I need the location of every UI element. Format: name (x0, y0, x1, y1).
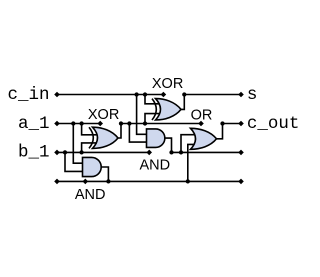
pin diamond a_1 left (54, 121, 60, 127)
svg-text:XOR: XOR (152, 76, 183, 92)
wire AND2 output to node and2 (165, 138, 172, 152)
junction dot c_out/ORout (220, 121, 224, 125)
or gate OR1 (191, 128, 217, 149)
wire OR output to c_out (217, 124, 223, 139)
svg-text:XOR: XOR (88, 107, 119, 123)
svg-text:b_1: b_1 (18, 143, 50, 163)
pin diamond and2 right (238, 150, 244, 156)
label AND2 (140, 158, 171, 174)
wire b_1 horizontal net (57, 151, 149, 153)
wire xor1 rise to XOR2 input B (145, 114, 160, 124)
pin diamond c_in end (161, 92, 167, 98)
pin diamond and1 mid (83, 179, 89, 185)
wire c_in horizontal net (57, 94, 163, 96)
and gate AND2 (147, 129, 165, 148)
wire XOR1 output to node xor1 (118, 124, 121, 139)
pin diamond xor1 end (198, 121, 204, 127)
junction dot a_1/AND1 (71, 121, 75, 125)
xor gate XOR1 (89, 127, 118, 148)
junction dot and1/OR (186, 179, 190, 183)
junction dot xor1 corner (119, 121, 123, 125)
junction dot c_in/XOR2 (143, 92, 147, 96)
xor gate XOR2 (152, 99, 181, 120)
svg-text:c_in: c_in (7, 85, 49, 105)
pin diamond b_1 end (146, 150, 152, 156)
svg-text:OR: OR (191, 107, 213, 123)
junction dot xor1/AND2 (127, 121, 131, 125)
junction dot b_1/XOR1 (79, 150, 83, 154)
svg-text:AND: AND (75, 187, 106, 203)
pin diamond and1 left (54, 179, 60, 185)
pin diamond c_out right (238, 121, 244, 127)
wire xor1 drop to AND2 input B (129, 124, 147, 143)
svg-text:AND: AND (140, 158, 171, 174)
wire c_in drop to XOR2 input A (145, 95, 160, 104)
label c_in (7, 85, 49, 105)
junction dot a_1/XOR1 (79, 121, 83, 125)
label AND1 (75, 187, 106, 203)
junction dot b_1/AND1 (63, 150, 67, 154)
junction dot and2/AND2out (169, 150, 173, 154)
label XOR2 (152, 76, 183, 92)
label OR1 (191, 107, 213, 123)
wire and1 rise to OR input B (188, 144, 198, 181)
wire AND1 output to node and1 (101, 167, 108, 181)
wire a_1 drop to AND1 input A (73, 124, 83, 164)
junction dot s/XOR2out (182, 92, 186, 96)
wire b_1 drop to AND1 input B (65, 152, 84, 171)
svg-text:c_out: c_out (247, 114, 300, 134)
svg-text:a_1: a_1 (18, 114, 50, 134)
pin diamond a_1 end (97, 121, 103, 127)
wire b_1 rise to XOR1 input B (82, 143, 97, 153)
pin diamond b_1 left (54, 150, 60, 156)
junction dot xor1/XOR2 (143, 121, 147, 125)
wire a_1 drop to XOR1 input A (82, 124, 97, 135)
label c_out (247, 114, 300, 134)
svg-text:s: s (247, 85, 258, 105)
pin diamond s right (238, 92, 244, 98)
label s (247, 85, 258, 105)
and gate AND1 (83, 157, 102, 176)
wire c_in drop to AND2 input A (137, 95, 148, 135)
label a_1 (18, 114, 50, 134)
pin diamond c_in left (54, 92, 60, 98)
wire a_1 horizontal net (57, 123, 100, 125)
wire and2 net horizontal (172, 151, 242, 153)
junction dot and2/OR (179, 150, 183, 154)
wire s horizontal net (184, 94, 241, 96)
wire XOR2 output to s (181, 95, 184, 110)
wire xor1 net horizontal (121, 123, 201, 125)
junction dot and1/AND1out (106, 179, 110, 183)
wire and1 net horizontal (57, 180, 241, 182)
junction dot c_in/AND2 (134, 92, 138, 96)
label XOR1 (88, 107, 119, 123)
label b_1 (18, 143, 50, 163)
wire and2 rise to OR input A (181, 135, 198, 153)
pin diamond and1 right (238, 179, 244, 185)
wire c_out horizontal net (223, 123, 242, 125)
